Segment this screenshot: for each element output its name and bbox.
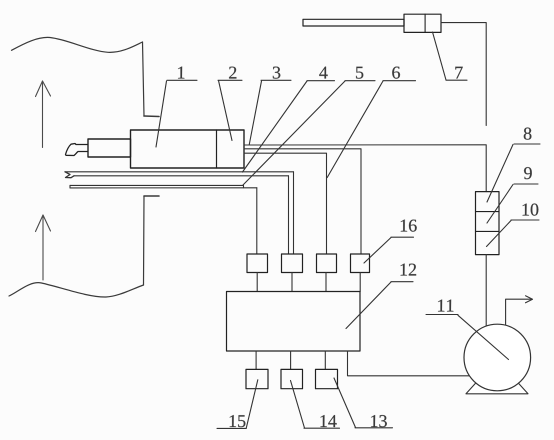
- label 6: [327, 67, 415, 178]
- label 9: [487, 167, 538, 223]
- pump base trapezoid: [466, 381, 528, 394]
- sensor 7 divider: [424, 14, 426, 32]
- sampling nozzle tip: [66, 144, 88, 156]
- stem manifold to valve14: [290, 351, 292, 369]
- tube B bottom line: [70, 187, 257, 189]
- duct wall lower stub: [144, 195, 159, 197]
- stem valve16 to manifold: [359, 273, 361, 292]
- capillary line to valve 16: [244, 149, 361, 254]
- sensor 7 body box: [404, 14, 441, 32]
- conditioning stack 8/9/10: [476, 192, 500, 255]
- manifold to pump suction line: [348, 351, 471, 376]
- valve box top 3: [317, 254, 337, 273]
- tube B top line: [70, 185, 244, 187]
- label 8: [487, 128, 540, 202]
- duct wall upper stub: [144, 115, 159, 118]
- label 12: [346, 264, 416, 329]
- sensor 7 thin bar: [303, 19, 404, 26]
- label 3: [249, 67, 291, 145]
- duct wall lower wavy line: [9, 283, 144, 297]
- tube A top line: [65, 171, 294, 173]
- duct wall lower vertical: [143, 196, 146, 285]
- valve box top 2: [282, 254, 303, 273]
- exhaust arrowhead: [526, 296, 533, 303]
- label 4: [243, 67, 335, 172]
- capillary line to conditioning stack: [244, 145, 486, 192]
- flow arrow upper: [36, 81, 51, 148]
- label 11: [426, 300, 509, 360]
- stem valve3 to manifold: [325, 273, 327, 292]
- tube A outer drop: [293, 172, 295, 254]
- stack divider 9/10: [476, 230, 500, 232]
- tube B drop to valve: [256, 188, 258, 254]
- label 7: [433, 32, 468, 80]
- manifold box 12: [227, 292, 361, 352]
- valve box 14: [281, 369, 303, 388]
- tube B left cap: [69, 185, 71, 188]
- stem valve1 to manifold: [256, 273, 258, 292]
- wire from sensor 7: [441, 23, 486, 126]
- probe barrel: [88, 139, 131, 157]
- label 1: [156, 67, 197, 147]
- label 16: [364, 220, 417, 263]
- label 14: [291, 381, 340, 429]
- valve box 13: [316, 369, 338, 388]
- stack to pump line: [485, 255, 487, 330]
- tube A inner drop: [288, 176, 290, 254]
- stem manifold to valve15: [255, 351, 257, 369]
- flow arrow lower: [36, 215, 51, 280]
- duct wall upper wavy line: [12, 37, 143, 52]
- label 10: [487, 204, 540, 247]
- duct wall upper vertical: [143, 42, 145, 116]
- housing box 1: [131, 130, 245, 168]
- label 15: [217, 380, 258, 429]
- capillary line to valve 3: [244, 153, 327, 254]
- label 2: [218, 67, 242, 141]
- valve box top 1: [247, 254, 268, 273]
- stem valve2 to manifold: [291, 273, 293, 292]
- valve box 16: [351, 254, 370, 273]
- label 5: [243, 67, 375, 185]
- tube A bottom line: [74, 175, 289, 177]
- pump exhaust pipe: [506, 299, 531, 330]
- housing divider (box 2): [216, 130, 218, 168]
- pump 11 circle: [464, 324, 531, 391]
- valve box 15: [246, 369, 268, 388]
- stem manifold to valve13: [324, 351, 326, 369]
- label 13: [334, 378, 393, 428]
- stack divider 8/9: [476, 211, 500, 213]
- tube A crimp end: [65, 172, 74, 178]
